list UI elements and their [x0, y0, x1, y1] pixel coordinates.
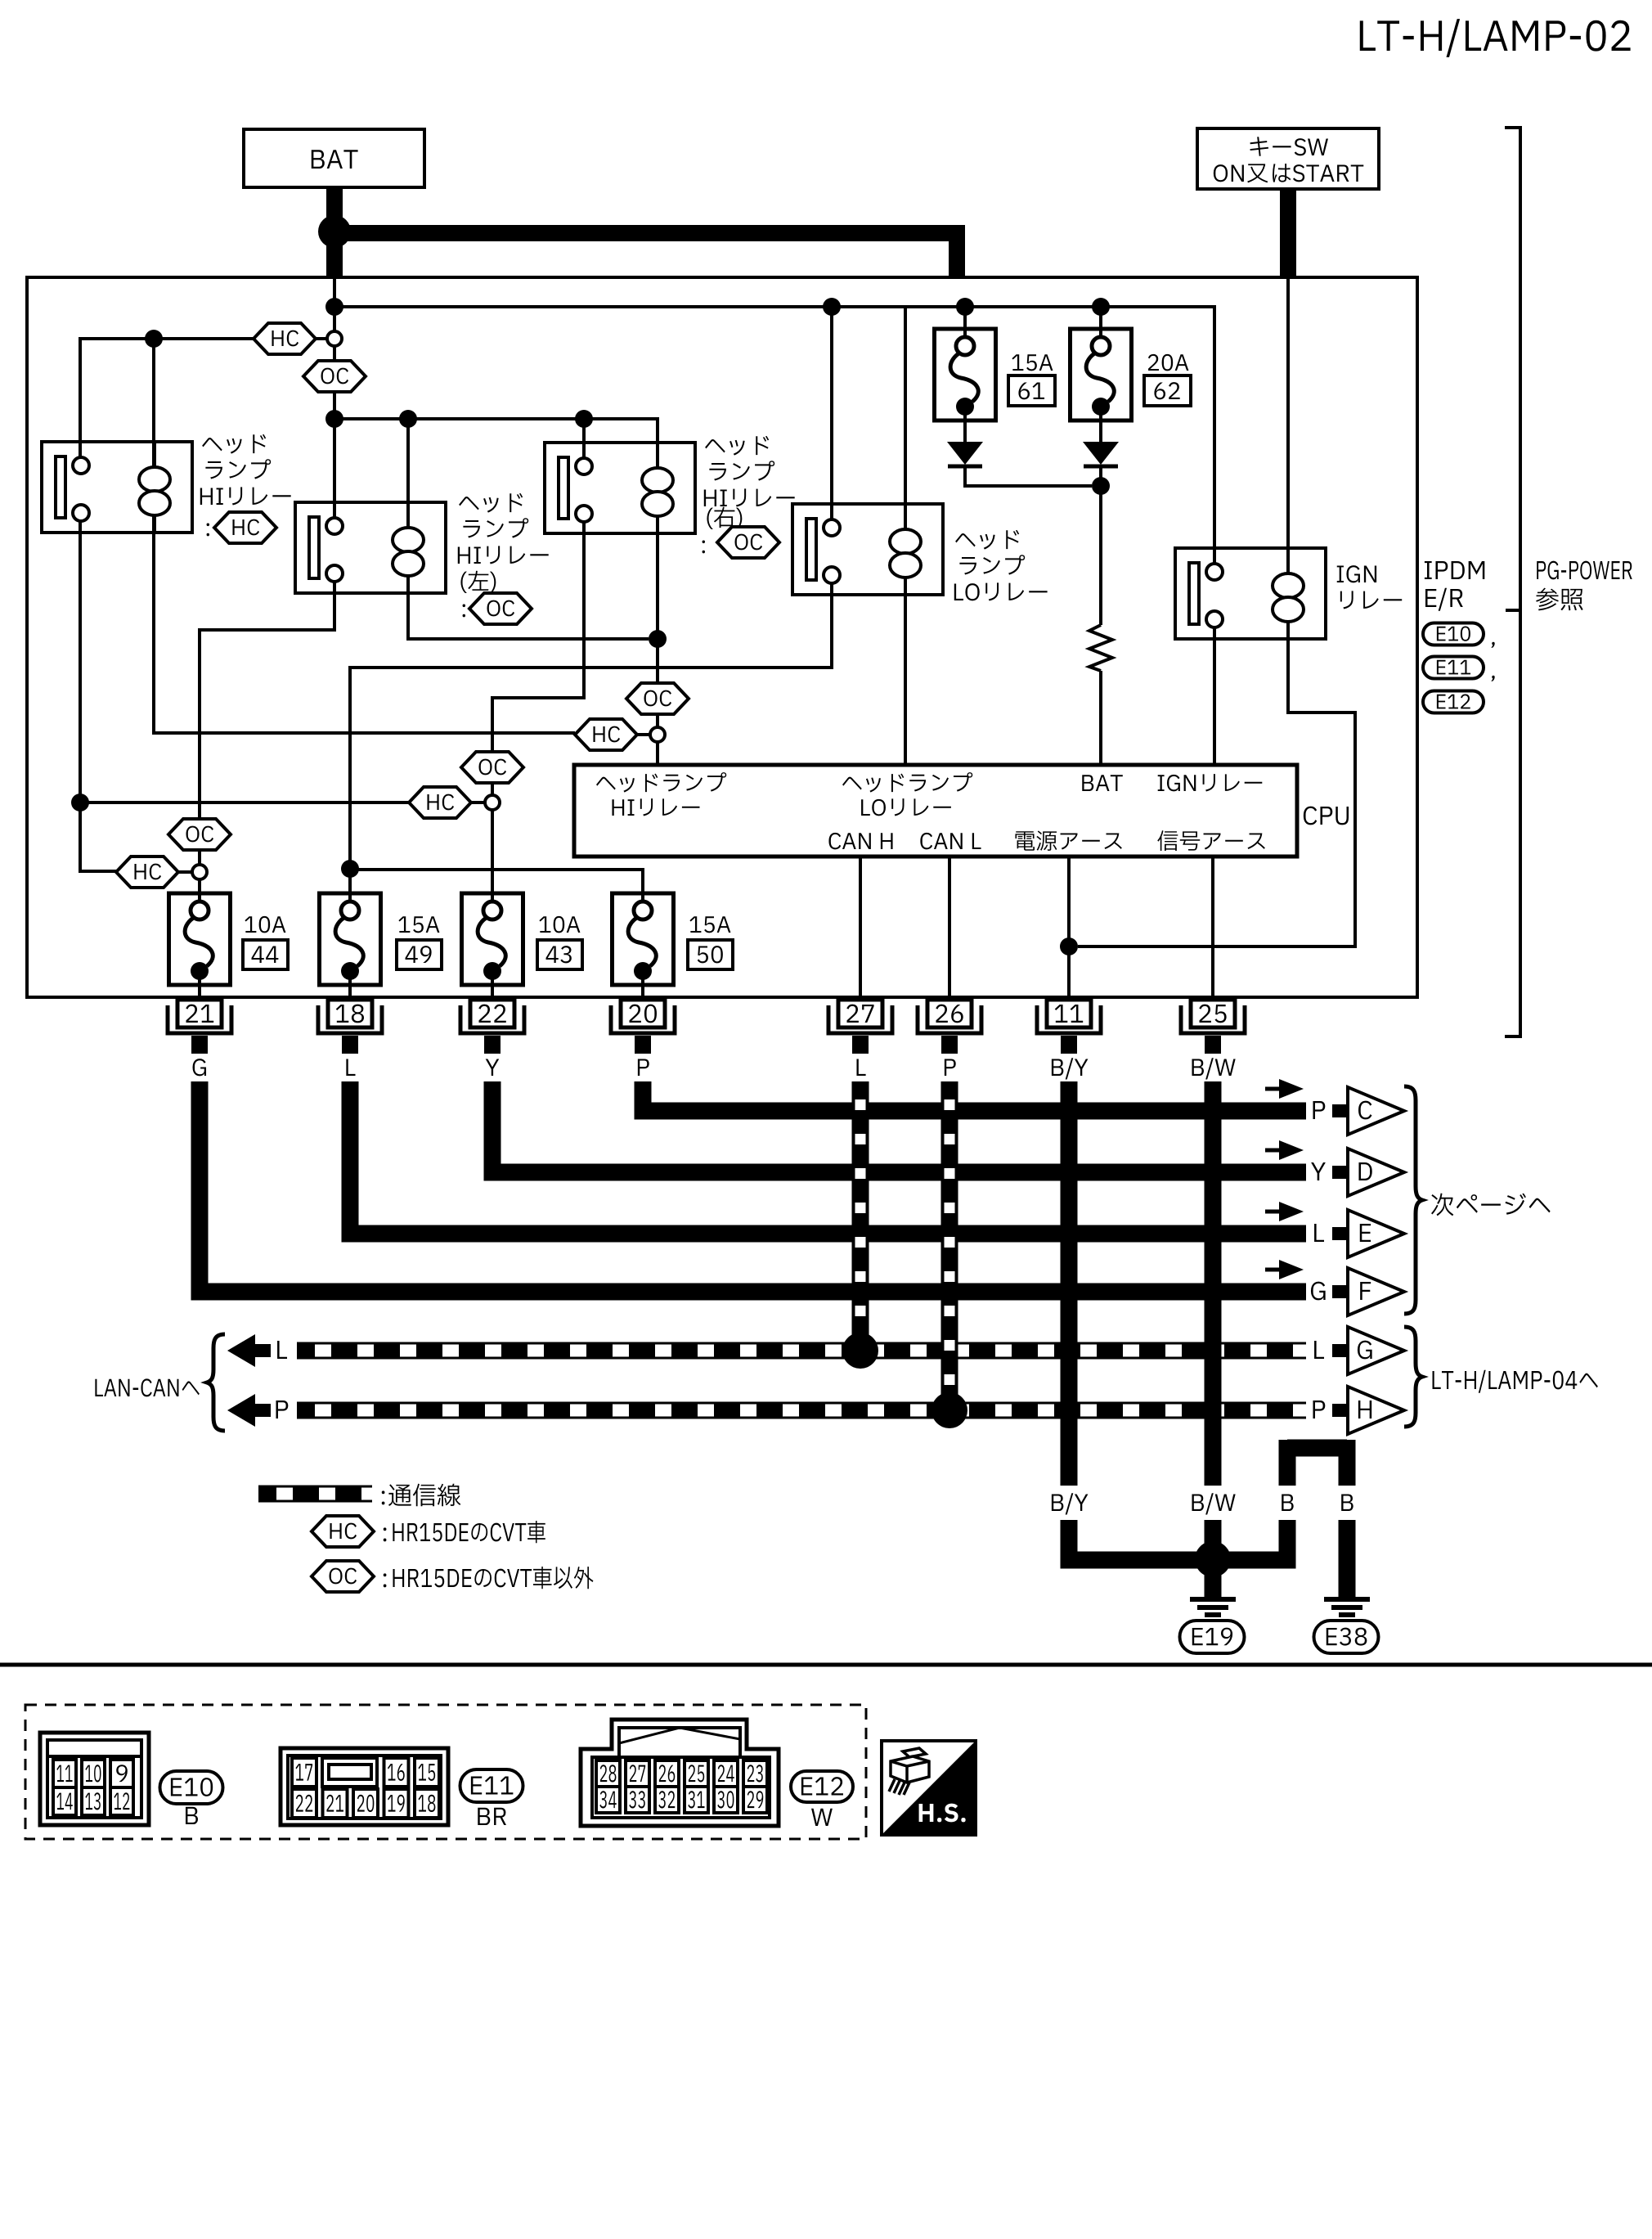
label CPU pin CAN L [920, 833, 981, 849]
bracket IPDM/PG-POWER [1505, 128, 1520, 1036]
wire B/W to ground junction [1205, 1520, 1222, 1560]
wire fuse61 to diode [963, 411, 967, 442]
wire LO relay contact out [350, 583, 832, 902]
node option merge fuse43 [485, 795, 500, 810]
wire CAN H to pin 27 [859, 856, 862, 1000]
label 50 box [688, 940, 733, 969]
wire HC hex to fuse43 node [471, 801, 485, 804]
wire HC branch to HI relay (HC) [154, 337, 254, 340]
wire option node to OC hex [333, 346, 336, 361]
hexagon option OC (fuse43) [461, 752, 523, 783]
connector oval E11 [460, 1769, 523, 1825]
ground symbol E38 [1324, 1599, 1370, 1615]
wire resistor to CPU BAT [1099, 671, 1102, 767]
wire diode62 out [1099, 466, 1102, 486]
wire L (thick) pin18 to row E [350, 1081, 1306, 1234]
pin 22 [460, 1000, 524, 1033]
wire HI relay(R) contact feed [582, 419, 586, 458]
node junction fuse62 feed [1092, 298, 1110, 316]
label CPU pin power ground [1015, 831, 1121, 851]
wire power ground to pin 11 [1067, 856, 1071, 1000]
label headlamp LO relay [954, 530, 1048, 601]
wire LO relay contact feed [830, 307, 833, 519]
wire fuse61 feed [963, 307, 967, 338]
key switch box キーSW ON又はSTART [1197, 128, 1379, 189]
node junction BAT/feed [325, 298, 343, 316]
hexagon option HC (top selector) [254, 323, 316, 354]
H.S. hand-symbol box [882, 1741, 976, 1835]
label headlamp HI relay :HC [200, 434, 291, 543]
wire B/W (thick) pin25 down [1205, 1081, 1222, 1486]
wire fuse44 out [198, 968, 201, 1000]
wire fuse44 node to fuse44 [198, 879, 201, 902]
wire diode junction down to resistor [1099, 486, 1102, 625]
comm wire L row to LAN-CAN [297, 1342, 1306, 1360]
node junction power ground / IGN coil return [1060, 937, 1078, 955]
label 15A fuse50 [689, 916, 730, 933]
label B left [1282, 1494, 1294, 1511]
node option merge (open circle) top selector [327, 331, 342, 346]
label CPU pin CAN H [828, 833, 892, 849]
wire HI relay(L) coil feed [406, 419, 410, 528]
label 20A fuse62 [1148, 354, 1189, 371]
terminal C (P wire, next page) [1265, 1079, 1404, 1135]
connector oval E10 ref [1423, 623, 1495, 648]
wire diode61 out [965, 466, 1092, 486]
resistor R-BAT [1089, 625, 1112, 671]
label B/Y lower [1052, 1493, 1089, 1514]
node junction HI relay(R) contact [575, 410, 593, 428]
node junction CAN L / P row [931, 1392, 967, 1428]
wire BAT drop to HC/OC selector [333, 278, 336, 331]
wire stub below pin / label P [941, 1036, 958, 1076]
diode D61 [947, 442, 983, 466]
node option merge CPU HI [650, 727, 665, 742]
wire stub below pin / label G [191, 1036, 208, 1076]
connector E12 drawing [581, 1720, 779, 1826]
wire B/Y (thick) pin11 down [1061, 1081, 1078, 1486]
wire OC hex to fuse43 node [491, 783, 494, 795]
pin 11 [1037, 1000, 1101, 1033]
node option merge fuse44 [192, 865, 207, 879]
fuse 15A 49 [320, 893, 381, 985]
node junction fuse61 feed [956, 298, 974, 316]
wire stub below pin / label B/Y [1052, 1036, 1089, 1079]
label CPU pin headlamp HI relay [596, 772, 726, 816]
title LT-H/LAMP-02 [1360, 19, 1631, 57]
label headlamp HI relay (left) :OC [458, 493, 549, 624]
wire LO relay coil feed [904, 307, 907, 529]
separator line [0, 1663, 1652, 1667]
fuse 15A 50 [613, 893, 674, 985]
wire fuse49 out [348, 968, 352, 1000]
wire stub below pin / label L [852, 1036, 869, 1076]
hexagon option HC (CPU HI line) [575, 719, 637, 750]
fuse 10A 44 [169, 893, 231, 985]
label 10A fuse43 [539, 916, 580, 933]
wire B/Y to ground junction [1069, 1520, 1213, 1560]
node junction fuse49/50 split [341, 860, 359, 878]
wire IGN relay contact out (to CPU) [1213, 627, 1216, 765]
wire B right to ground E38 [1339, 1520, 1356, 1597]
wire HI relay(HC) contact out [80, 521, 116, 871]
label 15A fuse61 [1012, 354, 1053, 371]
wire HC hex to option node [315, 337, 327, 340]
wire G (thick) pin21 to row F [200, 1081, 1306, 1292]
wire HC branch corner down to relay contact [80, 339, 154, 457]
wire fuse43 out [491, 968, 494, 1000]
comm wire CAN L vertical [941, 1081, 958, 1401]
wire branch to fuse50 [350, 870, 643, 902]
pin 27 [828, 1000, 892, 1033]
wire HI relay(L) coil out [408, 576, 649, 639]
terminal F (G wire, next page) [1265, 1260, 1404, 1315]
arrow to LAN-CAN L [227, 1334, 287, 1367]
wire Y (thick) pin22 to row D [492, 1081, 1306, 1172]
wire CPU HI node to CPU [656, 742, 659, 767]
label 15A fuse49 [398, 916, 439, 933]
wire ground junction stub [1205, 1559, 1222, 1597]
relay headlamp LO relay [792, 504, 943, 595]
label B right [1341, 1494, 1353, 1511]
pin 21 [168, 1000, 231, 1033]
connector E10 drawing [40, 1733, 149, 1825]
hexagon option OC (fuse44) [168, 819, 231, 850]
label 43 box [537, 940, 582, 969]
legend label HR15DEのCVT車 [384, 1521, 545, 1543]
legend hexagon HC [312, 1516, 374, 1547]
node junction CAN H / L row [842, 1333, 878, 1369]
fuse 10A 43 [462, 893, 523, 985]
comm wire P row to LAN-CAN [297, 1402, 1306, 1419]
wire B jumper top [1287, 1440, 1347, 1486]
connector oval E11 ref [1423, 657, 1495, 681]
terminal H (P comm, LT-H/LAMP-04) [1313, 1387, 1404, 1434]
wire HC relay coil feed [152, 339, 155, 468]
wire stub below pin / label L [342, 1036, 358, 1076]
hexagon option OC (top selector) [303, 361, 366, 392]
wire OC hex to fuse44 node [198, 850, 201, 865]
fuse 20A 62 [1071, 329, 1132, 420]
wire thick battery bus to fuse 61/62 [343, 233, 957, 277]
wire HI relay(L) contact out [200, 582, 334, 819]
legend label HR15DEのCVT車以外 [384, 1567, 594, 1589]
label CPU pin IGN relay [1158, 774, 1263, 791]
terminal E (L wire, next page) [1265, 1202, 1404, 1257]
node junction ground B/Y B/W B [1195, 1541, 1231, 1577]
wire stub below pin / label B/W [1192, 1036, 1235, 1079]
wire OC hex to CPU HI node [656, 714, 659, 727]
node junction HC relay branch [145, 330, 163, 348]
label 61 box [1008, 375, 1055, 406]
label 62 box [1144, 375, 1191, 406]
node junction HC contact split [71, 794, 89, 812]
arrow to LAN-CAN P [227, 1394, 288, 1427]
legend label 通信線 [382, 1484, 460, 1507]
wire IGN relay coil out (to ground line) [1078, 622, 1355, 946]
battery source box BAT [244, 129, 424, 187]
node junction HI relay(L) coil [399, 410, 417, 428]
legend hexagon OC [312, 1561, 374, 1592]
relay headlamp HI relay :HC [42, 442, 192, 533]
label LAN-CANへ [95, 1378, 199, 1396]
wire HC hex to CPU HI node [637, 733, 650, 736]
connector oval E12 [791, 1771, 853, 1826]
ground symbol E19 [1190, 1599, 1236, 1615]
wire CAN L to pin 26 [948, 856, 951, 1000]
brace LAN-CAN [207, 1334, 225, 1431]
brace LT-H/LAMP-04 [1404, 1327, 1422, 1427]
wire P (thick) pin20 to row C [643, 1081, 1306, 1111]
hexagon option HC (fuse43) [409, 787, 471, 818]
wire HI relay(L) contact feed [333, 419, 336, 519]
wire HC branch to fuse43 selector [80, 801, 409, 804]
connector oval E38 [1314, 1621, 1379, 1653]
relay IGN relay [1175, 548, 1326, 639]
diode D62 [1083, 442, 1119, 466]
wire BAT feed bus y375 [334, 307, 1214, 563]
label 44 box [243, 940, 288, 969]
wire fuse43 node to fuse43 [491, 810, 494, 902]
IPDM E/R outer box [27, 277, 1417, 997]
wire thick key-SW drop into IPDM box [1280, 189, 1296, 278]
wire B left to ground junction [1219, 1520, 1287, 1560]
pin 20 [611, 1000, 675, 1033]
wire HI relay bus y512 [334, 419, 658, 468]
wire OC hex to HI relay bus [333, 392, 336, 419]
wire stub below pin / label P [635, 1036, 651, 1076]
hexagon option OC (CPU HI line) [626, 683, 689, 714]
label CPU pin signal ground [1157, 830, 1265, 851]
wire HC hex to fuse44 node [178, 870, 192, 874]
wire fuse50 out [641, 968, 644, 1000]
node BAT junction [318, 215, 351, 248]
hexagon option HC (fuse44) [116, 856, 178, 888]
node junction HI relay(L) contact [325, 410, 343, 428]
label 49 box [397, 940, 442, 969]
node junction LO relay contact feed [823, 298, 841, 316]
label 次ページへ [1431, 1194, 1551, 1216]
fuse 15A 61 [935, 329, 996, 420]
connector oval E10 [160, 1771, 223, 1824]
wire HI relay(R) contact out [492, 521, 584, 752]
connector oval E19 [1180, 1621, 1245, 1653]
wire HI relay(HC) coil out [154, 515, 575, 733]
comm wire CAN H vertical [852, 1081, 869, 1342]
pin 25 [1181, 1000, 1245, 1033]
terminal D (Y wire, next page) [1265, 1140, 1404, 1196]
dashed connector box [25, 1705, 866, 1839]
node junction diode outputs [1092, 477, 1110, 495]
label CPU pin BAT [1082, 775, 1123, 791]
wire fuse62 to diode [1099, 411, 1102, 442]
wire HI relay(R) coil out [656, 516, 659, 683]
relay headlamp HI relay (left) :OC [295, 502, 446, 593]
legend comm line sample [258, 1486, 372, 1503]
label IGN relay [1337, 565, 1402, 609]
CPU box of IPDM [574, 765, 1349, 856]
connector E11 drawing [281, 1748, 448, 1825]
wire BAT thick stub [326, 187, 343, 232]
pin 18 [318, 1000, 382, 1033]
label B/W lower [1192, 1493, 1235, 1514]
label LT-H/LAMP-04へ [1433, 1370, 1598, 1393]
wire IGN relay coil feed (from key SW) [1286, 278, 1290, 573]
wire LO relay coil out (to CPU) [904, 578, 907, 767]
brace next page [1404, 1086, 1422, 1314]
label PG-POWER 参照 [1536, 561, 1632, 611]
wire thick BAT drop into IPDM box [326, 232, 343, 278]
label headlamp HI relay (right) :OC [703, 436, 795, 558]
connector oval E12 ref [1423, 691, 1484, 713]
wire signal ground to pin 25 [1211, 856, 1214, 1000]
wire stub below pin / label Y [484, 1036, 501, 1076]
label CPU pin headlamp LO relay [842, 772, 972, 816]
node junction HI coil join [649, 630, 667, 648]
pin 26 [918, 1000, 981, 1033]
wire fuse62 feed [1099, 307, 1102, 338]
relay headlamp HI relay (right) :OC [545, 443, 695, 533]
label 10A fuse44 [245, 916, 285, 933]
label IPDM E/R [1425, 561, 1484, 611]
terminal G (L comm, LT-H/LAMP-04) [1314, 1327, 1404, 1374]
